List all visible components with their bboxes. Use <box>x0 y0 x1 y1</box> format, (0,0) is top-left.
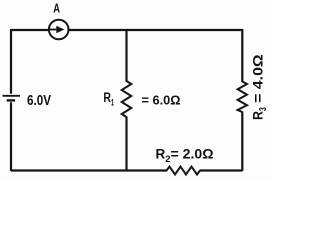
ammeter arrow shaft <box>50 29 60 31</box>
svg-text:A: A <box>53 1 60 16</box>
wire: middle branch lower <box>125 117 127 172</box>
svg-text:6.0V: 6.0V <box>27 93 51 109</box>
battery B1 long plate (+) <box>3 95 21 97</box>
wire: middle branch upper <box>125 29 127 82</box>
wire: right vertical upper <box>241 29 243 82</box>
wire: left vertical upper (corner to battery top plate) <box>10 29 12 94</box>
wire: left vertical lower (battery to bottom wire) <box>10 102 12 171</box>
battery B1 short plate (-) <box>7 99 15 101</box>
ammeter arrowhead <box>56 26 64 33</box>
ammeter A (circle) <box>49 20 69 40</box>
wire: right vertical lower <box>241 112 243 172</box>
wire: bottom from left corner to R2 <box>11 169 167 171</box>
resistor R1 zigzag <box>122 81 132 117</box>
wire: bottom from R2 to right corner <box>200 169 243 171</box>
svg-text:= 6.0Ω: = 6.0Ω <box>142 93 181 108</box>
resistor R3 zigzag <box>238 82 247 113</box>
wire: top from left corner to ammeter <box>11 29 242 31</box>
resistor R2 zigzag <box>167 167 201 175</box>
